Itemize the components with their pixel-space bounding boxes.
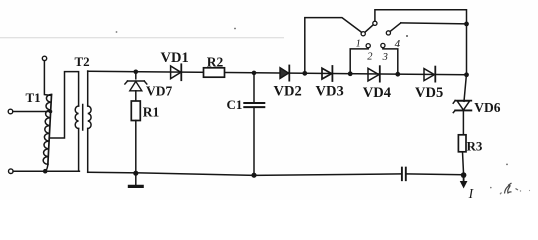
terminal T1 input middle (8, 109, 13, 114)
wire (253, 73, 255, 103)
svg-text:VD3: VD3 (316, 84, 344, 100)
wire (463, 152, 464, 175)
diode VD1 (171, 64, 182, 80)
wire bottom rail right (406, 173, 464, 176)
diode VD6 zener (453, 101, 471, 113)
svg-text:1: 1 (356, 38, 361, 49)
node (133, 171, 138, 176)
transformer T2 core (82, 105, 84, 131)
wire tap to T2 primary (49, 72, 78, 138)
wire (401, 23, 467, 24)
wire (45, 164, 48, 171)
current arrow (460, 175, 466, 188)
node (464, 72, 469, 77)
transformer T2 secondary winding (88, 106, 91, 129)
diode VD7 zener (125, 81, 147, 91)
wire right vertical upper (466, 24, 468, 75)
node (252, 71, 257, 76)
diode VD4 (368, 66, 380, 81)
svg-text:VD2: VD2 (274, 84, 302, 100)
node (461, 172, 467, 178)
wire (44, 61, 51, 96)
diode VD2 (280, 66, 289, 81)
svg-text:VD1: VD1 (161, 50, 189, 66)
terminal T1 input top (42, 56, 46, 60)
svg-text:2: 2 (367, 52, 373, 63)
wire (135, 91, 137, 101)
switch pivot contact (373, 21, 377, 25)
transformer T2 primary winding (75, 106, 78, 129)
wire (135, 72, 137, 79)
switch contact 4 (386, 31, 390, 35)
wire (135, 121, 137, 174)
switch contact 3 (381, 43, 385, 47)
wire contact3 to rail (383, 48, 398, 74)
node (348, 71, 353, 76)
wire left loop (305, 18, 362, 74)
node (134, 70, 139, 75)
wire T2 primary bottom (78, 129, 80, 172)
svg-text:VD6: VD6 (474, 100, 500, 115)
node (302, 71, 307, 76)
svg-text:3: 3 (382, 52, 388, 63)
node (43, 169, 48, 174)
svg-text:4: 4 (395, 38, 401, 50)
terminal bottom left (9, 169, 14, 174)
svg-text:R1: R1 (143, 105, 160, 120)
wire main top rail (88, 71, 467, 75)
svg-text:T2: T2 (75, 54, 90, 69)
svg-text:VD5: VD5 (415, 85, 443, 101)
wire T2 secondary top (87, 71, 89, 106)
diode VD3 (322, 66, 332, 81)
capacitor C1 (244, 103, 264, 107)
svg-text:VD4: VD4 (363, 85, 391, 101)
wire T2 secondary bottom (87, 129, 89, 173)
ground (129, 173, 142, 186)
wire contact2 to rail (350, 48, 368, 74)
resistor R3 (458, 135, 466, 152)
svg-text:VD7: VD7 (146, 84, 172, 99)
svg-text:C1: C1 (227, 97, 243, 112)
node (395, 72, 400, 77)
wire to top rail (375, 10, 467, 24)
svg-text:R3: R3 (467, 139, 483, 154)
capacitor series bottom (402, 168, 406, 181)
svg-text:R2: R2 (207, 54, 224, 69)
wire (13, 111, 51, 113)
watermark (116, 28, 531, 195)
switch contact 1 (361, 32, 365, 36)
switch blade (365, 25, 373, 32)
switch contact 2 (366, 44, 370, 48)
wire (462, 111, 464, 136)
wire bottom left rail (13, 170, 79, 172)
transformer T1 winding (43, 94, 52, 164)
diode VD5 (424, 67, 435, 82)
node (251, 173, 256, 178)
resistor R2 (204, 68, 225, 77)
wire right vertical mid (464, 75, 466, 102)
node (464, 22, 469, 27)
node tap junction (49, 110, 53, 114)
resistor R1 (131, 101, 140, 121)
switch blade 4 (390, 23, 401, 32)
wire bottom rail left (88, 172, 402, 175)
wire (253, 107, 255, 175)
svg-text:T1: T1 (26, 90, 41, 105)
